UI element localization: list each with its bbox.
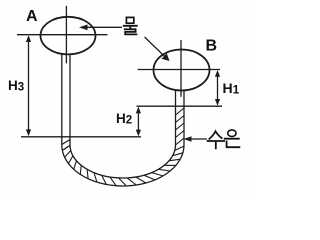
bulb A center line	[65, 6, 67, 64]
arrowhead into bulb A	[79, 25, 88, 31]
label mercury syllable su: siot	[209, 131, 221, 139]
right tube inner wall	[175, 90, 177, 145]
label mercury syllable eun: ieung circle	[228, 130, 236, 137]
label mercury syllable su: vowel u	[208, 141, 225, 148]
bulb B center line	[180, 40, 182, 97]
U-bend inner wall	[70, 145, 176, 178]
mercury hatch rungs left tube	[62, 140, 71, 151]
arrow from mercury label to right tube	[189, 138, 207, 140]
svg-text:H3: H3	[8, 78, 24, 94]
mercury hatch rungs U-bend	[65, 146, 184, 186]
dimension H2 line	[137, 110, 139, 133]
mercury level line right side	[137, 105, 223, 107]
water level line in bulb B	[138, 69, 220, 71]
arrowhead to right tube (mercury)	[184, 136, 192, 142]
mercury level line left side	[21, 136, 141, 138]
left tube inner wall	[69, 55, 71, 145]
H2 bottom arrowhead	[136, 130, 141, 137]
svg-text:B: B	[206, 37, 218, 54]
label water vowel u bar	[124, 26, 137, 28]
H3 top arrowhead	[26, 35, 31, 42]
right tube outer wall	[183, 90, 185, 145]
label water (Hangul mul) box mium	[126, 17, 133, 23]
svg-text:A: A	[26, 8, 38, 25]
mercury hatch rungs right tube	[176, 108, 185, 145]
water level line in bulb A	[17, 34, 108, 36]
H1 bottom arrowhead	[215, 99, 220, 106]
arrow from water label to bulb B	[145, 37, 167, 58]
arrowhead into bulb B	[162, 53, 170, 61]
label water rieul	[125, 29, 137, 34]
bulb A	[41, 17, 96, 55]
label mercury syllable eun: nieun	[227, 141, 240, 147]
dimension H1 line	[217, 74, 219, 102]
H2 top arrowhead	[136, 107, 141, 114]
svg-text:H2: H2	[116, 111, 132, 127]
bulb B	[154, 50, 210, 91]
H1 top arrowhead	[215, 70, 220, 77]
dimension H3 line	[28, 40, 30, 131]
arrow from water label to bulb A	[86, 26, 122, 28]
svg-text:H1: H1	[223, 80, 240, 96]
label mercury syllable eun: eu bar	[225, 138, 239, 140]
left tube outer wall	[61, 54, 63, 145]
U-bend outer wall	[62, 145, 184, 186]
H3 bottom arrowhead	[26, 129, 31, 136]
